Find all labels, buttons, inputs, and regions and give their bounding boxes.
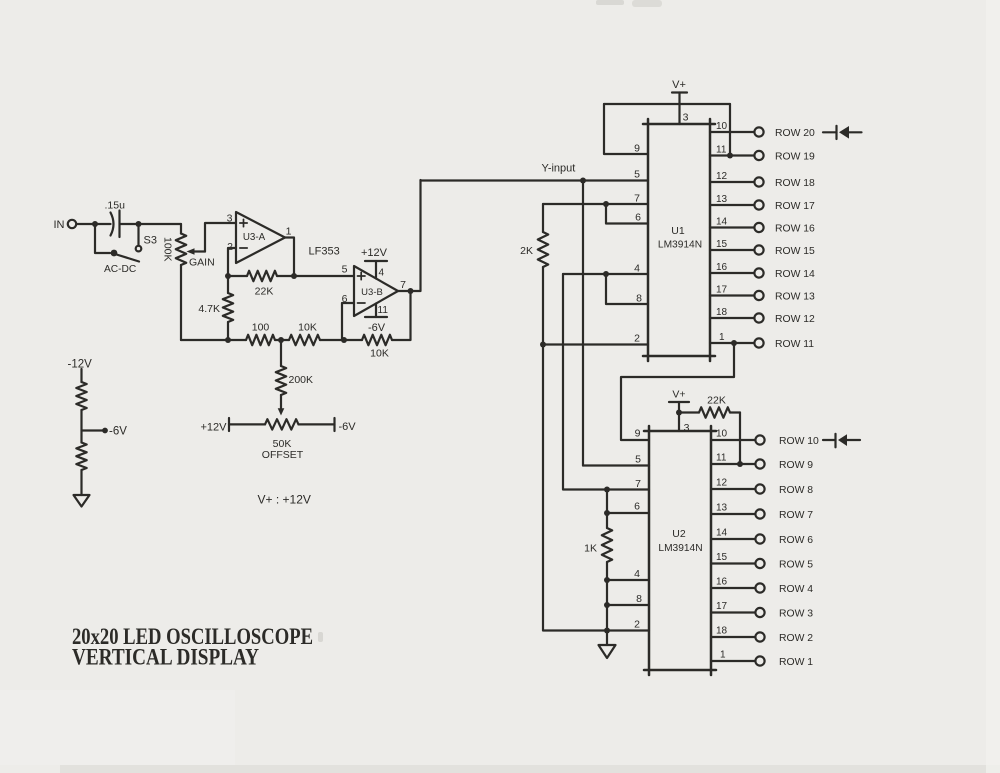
node pin8 U2 xyxy=(604,602,610,608)
node input junction xyxy=(92,221,98,227)
svg-text:ROW 2: ROW 2 xyxy=(779,633,813,644)
wire pin2 U1 xyxy=(543,343,648,345)
svg-text:5: 5 xyxy=(342,264,348,276)
wire 22K to pin11 U2 xyxy=(739,413,741,465)
svg-text:ROW 11: ROW 11 xyxy=(775,339,814,350)
svg-text:11: 11 xyxy=(378,305,389,316)
wire wiper to op-amp xyxy=(205,223,236,252)
resistor R10 xyxy=(76,443,86,471)
svg-text:-6V: -6V xyxy=(339,421,357,433)
wire U1 pin 15 stub xyxy=(710,249,754,251)
svg-text:-6V: -6V xyxy=(109,426,127,438)
svg-text:ROW 20: ROW 20 xyxy=(775,128,815,139)
wire +12V to pot xyxy=(229,423,265,425)
wire pin2 feedback xyxy=(228,248,236,276)
ground U2 xyxy=(599,645,616,658)
svg-text:4: 4 xyxy=(634,263,640,275)
potentiometer R1 100K body xyxy=(180,224,182,234)
svg-text:ROW 18: ROW 18 xyxy=(775,178,815,189)
svg-text:1: 1 xyxy=(720,650,726,661)
terminal ROW 9 xyxy=(755,459,764,468)
svg-text:ROW 5: ROW 5 xyxy=(779,560,813,571)
node rail pin6 xyxy=(341,337,347,343)
wire pin6 xyxy=(342,303,354,340)
node pin4 U2 xyxy=(604,577,610,583)
svg-text:ROW 13: ROW 13 xyxy=(775,292,815,303)
svg-text:ROW 9: ROW 9 xyxy=(779,460,813,471)
wire xyxy=(275,339,289,341)
resistor R6 10K feedback xyxy=(362,335,392,345)
svg-text:ROW 7: ROW 7 xyxy=(779,510,813,521)
terminal ROW 7 xyxy=(755,509,764,518)
svg-text:10K: 10K xyxy=(370,348,389,360)
resistor R12 22K xyxy=(679,411,699,413)
wire U2 pin 1 stub xyxy=(711,660,755,662)
terminal ROW 20 xyxy=(754,127,763,136)
wire U1 pin 16 stub xyxy=(710,272,754,274)
svg-text:4: 4 xyxy=(634,568,640,580)
svg-text:ROW 17: ROW 17 xyxy=(775,201,815,212)
svg-text:22K: 22K xyxy=(255,286,274,298)
wire U1 pin 11 stub xyxy=(710,154,754,156)
svg-text:+12V: +12V xyxy=(201,422,228,434)
svg-text:ROW 8: ROW 8 xyxy=(779,485,813,496)
wire U1 pin 18 stub xyxy=(710,317,754,319)
tap -6V xyxy=(82,429,104,431)
svg-text:12: 12 xyxy=(716,478,728,489)
wire xyxy=(320,339,362,341)
wiper arrow 200K xyxy=(278,408,285,415)
svg-text:9: 9 xyxy=(635,428,641,440)
svg-text:1: 1 xyxy=(286,226,292,238)
wire U2 pin 10 stub xyxy=(711,439,755,441)
node pin7 U2 xyxy=(604,487,610,493)
svg-text:200K: 200K xyxy=(289,374,314,386)
svg-text:15: 15 xyxy=(716,552,728,563)
wire to pin5 xyxy=(294,275,354,277)
svg-text:9: 9 xyxy=(634,143,640,155)
wire Y-input down to U2 xyxy=(582,181,584,466)
node rail 4.7K xyxy=(225,337,231,343)
wire pin8 to pin2 U2 xyxy=(606,605,608,631)
node pin1 U1 xyxy=(731,340,737,346)
svg-text:-12V: -12V xyxy=(68,359,93,371)
svg-text:2: 2 xyxy=(634,619,640,631)
terminal ROW 19 xyxy=(754,151,763,160)
wire output up xyxy=(411,180,421,291)
svg-text:8: 8 xyxy=(636,593,642,605)
wire pin8 U2 xyxy=(607,604,649,606)
op-amp U3-B xyxy=(354,266,398,316)
svg-text:ROW 15: ROW 15 xyxy=(775,246,815,257)
wire ground bus down xyxy=(543,345,649,631)
wire xyxy=(80,410,82,443)
svg-text:3: 3 xyxy=(683,112,689,124)
resistor R7 200K xyxy=(280,340,282,366)
IC U2 box xyxy=(648,426,651,675)
svg-text:11: 11 xyxy=(716,145,727,156)
node pin6 U2 xyxy=(604,510,610,516)
wire U2 pin 11 stub xyxy=(711,463,755,465)
terminal ROW 11 xyxy=(754,338,763,347)
svg-text:ROW 14: ROW 14 xyxy=(775,269,815,280)
scan smudge top xyxy=(596,0,624,5)
svg-text:U3-B: U3-B xyxy=(361,287,383,298)
svg-text:LM3914N: LM3914N xyxy=(658,240,702,251)
wire output U3-A xyxy=(285,238,294,277)
node pin11 U1 xyxy=(727,153,733,159)
resistor R3 4.7K xyxy=(227,276,229,293)
wire xyxy=(120,223,181,225)
node V+ U2 xyxy=(676,410,682,416)
svg-text:+12V: +12V xyxy=(361,247,388,259)
svg-text:17: 17 xyxy=(716,601,728,612)
terminal ROW 8 xyxy=(755,484,764,493)
terminal ROW 15 xyxy=(754,245,763,254)
input terminal IN xyxy=(68,220,76,228)
wire U1 pin 14 stub xyxy=(710,226,754,228)
power -6V U3-B xyxy=(375,304,377,318)
power bar V+ U2 xyxy=(669,401,689,403)
wire pins48 down to U2 pin7 xyxy=(563,274,649,490)
svg-text:-6V: -6V xyxy=(368,322,386,334)
resistor R13 1K xyxy=(602,528,612,562)
op-amp U3-A xyxy=(236,212,285,263)
node rail 200K xyxy=(278,337,284,343)
svg-text:17: 17 xyxy=(716,285,728,296)
svg-text:7: 7 xyxy=(635,478,641,490)
wire pin4 U2 xyxy=(607,579,649,581)
svg-text:7: 7 xyxy=(400,279,406,291)
ground xyxy=(74,495,90,507)
wire Y-input xyxy=(421,179,584,181)
wire U1 pin 1 stub xyxy=(710,342,754,344)
svg-text:16: 16 xyxy=(716,262,728,273)
svg-text:Y-input: Y-input xyxy=(542,163,576,175)
wire pot to -6V xyxy=(299,423,335,425)
terminal ROW 17 xyxy=(754,200,763,209)
svg-text:4.7K: 4.7K xyxy=(198,303,220,315)
wire xyxy=(77,223,111,225)
svg-text:10: 10 xyxy=(716,121,728,132)
svg-text:8: 8 xyxy=(636,293,642,305)
potentiometer R1 wiper arrow xyxy=(193,250,205,252)
node feedback left xyxy=(225,273,231,279)
resistor R9 xyxy=(76,382,86,410)
terminal ROW 18 xyxy=(754,177,763,186)
node after capacitor xyxy=(136,221,142,227)
svg-text:1K: 1K xyxy=(584,543,597,555)
scan noise bottom xyxy=(60,765,1000,773)
svg-text:4: 4 xyxy=(379,268,385,279)
IC U1 box xyxy=(647,119,650,361)
svg-text:U1: U1 xyxy=(671,225,685,237)
svg-text:IN: IN xyxy=(54,219,65,231)
terminal ROW 5 xyxy=(755,559,764,568)
wire xyxy=(80,470,82,495)
wire 1K to pin4 U2 xyxy=(606,562,608,580)
svg-text:22K: 22K xyxy=(707,395,726,407)
terminal ROW 13 xyxy=(754,291,763,300)
wire U2 pin 18 stub xyxy=(711,636,755,638)
svg-text:5: 5 xyxy=(635,454,641,466)
svg-text:18: 18 xyxy=(716,307,728,318)
svg-text:14: 14 xyxy=(716,217,728,228)
capacitor C1 .15u xyxy=(111,213,114,236)
svg-text:14: 14 xyxy=(716,528,728,539)
terminal ROW 12 xyxy=(754,313,763,322)
terminal ROW 16 xyxy=(754,223,763,232)
svg-text:7: 7 xyxy=(634,193,640,205)
node pins67 U1 xyxy=(603,201,609,207)
wire pin6 U2 xyxy=(607,512,649,514)
svg-text:18: 18 xyxy=(716,626,728,637)
svg-text:ROW 10: ROW 10 xyxy=(779,436,819,447)
node pins48 U1 xyxy=(603,271,609,277)
terminal ROW 2 xyxy=(755,632,764,641)
svg-text:VERTICAL DISPLAY: VERTICAL DISPLAY xyxy=(72,645,259,670)
resistor R5 10K xyxy=(289,335,320,345)
svg-text:ROW 19: ROW 19 xyxy=(775,152,815,163)
wire to output xyxy=(392,291,411,340)
terminal ROW 1 xyxy=(755,656,764,665)
svg-text:ROW 3: ROW 3 xyxy=(779,609,813,620)
node ground 2K xyxy=(540,342,546,348)
terminal ROW 6 xyxy=(755,534,764,543)
svg-text:13: 13 xyxy=(716,503,728,514)
wire top loop U1 xyxy=(604,103,730,105)
wire U1 pin 17 stub xyxy=(710,294,754,296)
wire bottom rail xyxy=(181,339,246,341)
svg-text:OFFSET: OFFSET xyxy=(262,449,304,461)
svg-text:ROW 1: ROW 1 xyxy=(779,657,813,668)
diode D2 xyxy=(823,439,836,441)
node output U3-B xyxy=(408,288,414,294)
node pin2 U2 xyxy=(604,628,610,634)
wire pins67 down U2 xyxy=(606,490,608,529)
wire U2 pin5 stub xyxy=(583,464,649,466)
svg-text:V+: V+ xyxy=(672,79,686,91)
terminal ROW 3 xyxy=(755,608,764,617)
svg-text:S3: S3 xyxy=(144,235,157,247)
svg-text:2K: 2K xyxy=(520,245,533,257)
wire U2 pin 15 stub xyxy=(711,562,755,564)
wire pins67 U1 xyxy=(543,203,648,205)
wire pin6 U1 xyxy=(606,204,648,224)
wire U1 pin 13 stub xyxy=(710,204,754,206)
svg-text:ROW 6: ROW 6 xyxy=(779,535,813,546)
svg-text:LM3914N: LM3914N xyxy=(658,543,702,554)
node Y-input xyxy=(580,178,586,184)
svg-text:11: 11 xyxy=(716,453,727,464)
op-amp U3-B plus xyxy=(358,275,366,277)
svg-text:ROW 16: ROW 16 xyxy=(775,224,815,235)
diode D1 xyxy=(823,131,837,133)
svg-text:15: 15 xyxy=(716,239,728,250)
svg-text:3: 3 xyxy=(227,213,233,225)
wire xyxy=(80,369,82,382)
wire to ground U2 xyxy=(606,631,608,646)
svg-text:10K: 10K xyxy=(298,322,317,334)
svg-text:5: 5 xyxy=(634,169,640,181)
wire U2 pin 13 stub xyxy=(711,513,755,515)
node output junction xyxy=(291,273,297,279)
svg-text:6: 6 xyxy=(635,212,641,224)
resistor R4 100 xyxy=(246,335,275,345)
potentiometer R8 50K body xyxy=(265,419,299,429)
svg-text:100: 100 xyxy=(252,322,270,334)
svg-text:LF353: LF353 xyxy=(309,246,340,258)
wire U1 pin1 to U2 pin9 xyxy=(621,343,734,440)
svg-text:ROW 12: ROW 12 xyxy=(775,314,815,325)
op-amp U3-A plus xyxy=(240,222,247,224)
svg-text:10: 10 xyxy=(716,429,728,440)
op-amp U3-A minus xyxy=(240,247,247,249)
wire U1 pin5 stub xyxy=(583,179,648,181)
wire pin8 U1 xyxy=(606,274,648,304)
switch S3 pole and arm xyxy=(111,250,118,257)
terminal ROW 4 xyxy=(755,583,764,592)
wire U2 pin 17 stub xyxy=(711,611,755,613)
wire pin4 to pin8 U2 xyxy=(606,580,608,605)
terminal ROW 14 xyxy=(754,268,763,277)
resistor R2 22K xyxy=(228,275,247,277)
wire xyxy=(95,227,110,253)
wire U2 pin 16 stub xyxy=(711,587,755,589)
wire output U3-B xyxy=(398,290,411,292)
power bar V+ U1 xyxy=(672,91,687,93)
wire pin9 U1 xyxy=(604,104,648,154)
wire U2 pin 12 stub xyxy=(711,488,755,490)
wire U1 pin 12 stub xyxy=(710,181,754,183)
svg-text:100K: 100K xyxy=(162,237,174,262)
svg-text:1: 1 xyxy=(719,332,725,343)
svg-text:V+ : +12V: V+ : +12V xyxy=(258,493,311,507)
svg-text:.15u: .15u xyxy=(105,200,126,212)
svg-text:16: 16 xyxy=(716,577,728,588)
svg-text:13: 13 xyxy=(716,194,728,205)
switch S3 contact xyxy=(137,227,139,245)
svg-text:6: 6 xyxy=(634,501,640,513)
svg-text:GAIN: GAIN xyxy=(189,257,215,269)
wire pins48 U1 xyxy=(563,273,648,275)
svg-text:AC-DC: AC-DC xyxy=(104,264,136,275)
wire U1 pin 10 stub xyxy=(710,131,754,133)
svg-text:ROW 4: ROW 4 xyxy=(779,584,813,595)
svg-text:V+: V+ xyxy=(672,389,685,401)
svg-text:12: 12 xyxy=(716,171,728,182)
svg-text:U2: U2 xyxy=(672,528,686,540)
svg-text:U3-A: U3-A xyxy=(243,232,266,243)
op-amp U3-B minus xyxy=(358,302,366,304)
terminal ROW 10 xyxy=(755,435,764,444)
resistor R11 2K xyxy=(542,204,544,232)
svg-text:2: 2 xyxy=(634,333,640,345)
wire mode to pin11 U1 xyxy=(729,104,731,156)
node pin11 U2 xyxy=(737,461,743,467)
wire U2 pin 14 stub xyxy=(711,538,755,540)
